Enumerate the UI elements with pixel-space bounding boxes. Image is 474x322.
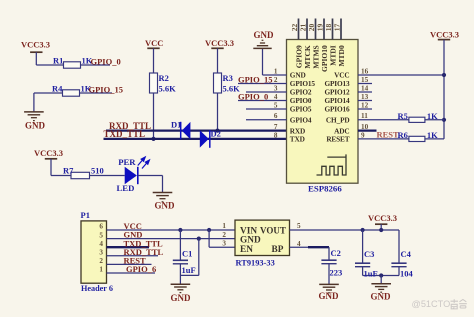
svg-text:GPIO_6: GPIO_6: [126, 264, 156, 274]
svg-text:RT9193-33: RT9193-33: [236, 258, 275, 267]
svg-text:1: 1: [222, 222, 226, 230]
svg-text:@51CTO: @51CTO: [412, 299, 451, 309]
svg-text:VCC3.3: VCC3.3: [430, 30, 459, 40]
svg-text:6: 6: [274, 112, 278, 120]
svg-text:C4: C4: [401, 249, 412, 259]
svg-text:C3: C3: [364, 249, 374, 259]
svg-text:17: 17: [333, 24, 342, 32]
svg-text:GND: GND: [371, 291, 392, 301]
svg-text:1: 1: [99, 266, 103, 274]
svg-text:12: 12: [361, 101, 369, 109]
svg-text:8: 8: [274, 131, 278, 139]
svg-text:C2: C2: [331, 248, 341, 258]
svg-text:D2: D2: [211, 129, 221, 139]
svg-text:GPIO16: GPIO16: [324, 105, 350, 114]
svg-text:GPIO_0: GPIO_0: [91, 57, 121, 67]
svg-text:223: 223: [330, 267, 343, 277]
svg-text:R5: R5: [398, 111, 408, 121]
svg-text:4: 4: [274, 93, 278, 101]
svg-text:CH_PD: CH_PD: [326, 116, 350, 125]
svg-text:R1: R1: [53, 56, 63, 66]
svg-text:3: 3: [274, 84, 278, 92]
svg-text:1uF: 1uF: [182, 265, 196, 275]
svg-text:510: 510: [91, 166, 104, 176]
svg-text:D1: D1: [171, 119, 181, 129]
svg-text:ESP8266: ESP8266: [308, 183, 342, 193]
svg-text:5.6K: 5.6K: [159, 84, 177, 94]
svg-text:LED: LED: [117, 183, 135, 193]
svg-text:2: 2: [274, 76, 278, 84]
svg-text:GPIO_15: GPIO_15: [238, 75, 272, 85]
svg-text:104: 104: [400, 268, 414, 278]
svg-text:GPIO4: GPIO4: [290, 116, 312, 125]
svg-text:9: 9: [361, 131, 365, 139]
svg-text:GND: GND: [155, 201, 176, 211]
svg-text:1uF: 1uF: [364, 268, 378, 278]
svg-text:VCC: VCC: [145, 38, 163, 48]
svg-text:PER: PER: [118, 157, 136, 167]
svg-text:GND: GND: [25, 121, 46, 131]
svg-text:6: 6: [99, 223, 103, 231]
svg-text:14: 14: [361, 84, 369, 92]
svg-text:5: 5: [274, 101, 278, 109]
svg-text:VOUT: VOUT: [260, 225, 286, 235]
svg-text:VCC3.3: VCC3.3: [205, 38, 234, 48]
svg-text:R6: R6: [398, 130, 408, 140]
svg-text:VCC3.3: VCC3.3: [21, 40, 50, 50]
svg-text:11: 11: [361, 112, 368, 120]
svg-text:R3: R3: [223, 73, 233, 83]
svg-text:GPIO_15: GPIO_15: [89, 85, 123, 95]
svg-text:Header 6: Header 6: [81, 284, 113, 293]
svg-text:7: 7: [274, 123, 278, 131]
svg-text:REST: REST: [377, 130, 400, 140]
svg-text:MTD0: MTD0: [337, 45, 346, 66]
svg-text:R4: R4: [52, 84, 63, 94]
svg-text:R2: R2: [159, 73, 169, 83]
svg-text:TXD_TTL: TXD_TTL: [104, 129, 146, 139]
svg-text:BP: BP: [272, 245, 284, 255]
svg-text:GND: GND: [254, 30, 275, 40]
svg-text:GND: GND: [171, 293, 192, 303]
svg-text:RESET: RESET: [326, 135, 349, 144]
svg-text:3: 3: [222, 239, 226, 247]
svg-text:3: 3: [99, 249, 103, 257]
svg-text:4: 4: [99, 240, 103, 248]
svg-text:R7: R7: [63, 166, 74, 176]
svg-text:13: 13: [361, 93, 369, 101]
svg-text:2: 2: [99, 257, 103, 265]
svg-text:5: 5: [99, 231, 103, 239]
svg-text:P1: P1: [81, 210, 90, 220]
svg-text:GPIO5: GPIO5: [290, 105, 312, 114]
svg-text:5: 5: [297, 222, 301, 230]
svg-text:2: 2: [222, 231, 226, 239]
svg-text:15: 15: [361, 76, 369, 84]
svg-text:EN: EN: [240, 245, 253, 255]
svg-text:C1: C1: [182, 248, 192, 258]
svg-text:VCC3.3: VCC3.3: [368, 213, 397, 223]
svg-text:VCC3.3: VCC3.3: [34, 148, 63, 158]
svg-text:GPIO_0: GPIO_0: [238, 92, 268, 102]
svg-text:1: 1: [274, 67, 278, 75]
svg-text:TXD: TXD: [290, 135, 305, 144]
svg-text:GND: GND: [319, 291, 340, 301]
svg-text:16: 16: [361, 67, 369, 75]
